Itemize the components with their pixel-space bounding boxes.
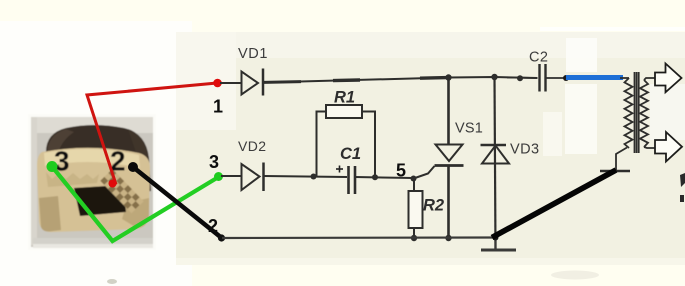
wire R2 top xyxy=(413,179,415,192)
white streak xyxy=(540,27,685,31)
svg-text:VD1: VD1 xyxy=(238,46,268,62)
svg-text:C1: C1 xyxy=(340,145,361,163)
schematic beige background xyxy=(176,32,685,262)
capacitor C2 xyxy=(540,64,546,92)
capacitor C1 plates xyxy=(349,166,356,194)
svg-text:VD2: VD2 xyxy=(238,138,266,154)
photo of ignition coil connector xyxy=(28,114,156,250)
white patch small left xyxy=(543,112,562,156)
white patch near transformer xyxy=(565,84,597,154)
plus sign C1 xyxy=(336,166,343,173)
diode VD3 xyxy=(481,77,510,250)
svg-text:VS1: VS1 xyxy=(455,121,483,137)
wire C1 to node 5 xyxy=(355,177,413,178)
wire secondary top xyxy=(644,78,655,80)
red wire from schematic pin 1 to photo xyxy=(87,83,217,185)
photo bottom gray strip xyxy=(33,238,153,248)
bottom-left smudge xyxy=(107,279,117,284)
wire C2 right xyxy=(546,77,566,79)
resistor R2 xyxy=(409,191,423,228)
node dot 5 xyxy=(411,176,417,182)
svg-text:R1: R1 xyxy=(334,89,355,107)
green wire from photo pin 3 to schematic input 3 xyxy=(52,167,219,242)
wire VD2 anode xyxy=(221,175,241,177)
schematic lighter top band xyxy=(176,32,685,58)
node dot VS1 anode xyxy=(445,74,451,80)
right edge glyph xyxy=(680,173,685,187)
wire thick segment c xyxy=(420,76,447,80)
node dot VD3 top xyxy=(491,74,497,80)
bottom-right smudge xyxy=(551,271,599,280)
socket opening xyxy=(74,185,126,216)
primary winding xyxy=(625,78,633,148)
wire thick segment a xyxy=(264,80,301,84)
green node dot at 3 xyxy=(214,172,223,181)
node dot C2 left xyxy=(517,75,523,81)
coil body dark blob xyxy=(46,125,151,192)
connector housing tan xyxy=(37,148,150,232)
wire VD2 to C1 xyxy=(264,176,347,177)
svg-text:3: 3 xyxy=(209,152,219,172)
resistor R1 xyxy=(326,105,362,118)
white left panel xyxy=(0,21,192,286)
white patch right of transformer xyxy=(650,84,685,140)
node dot R2 bottom xyxy=(411,235,417,241)
schematic lighter left edge xyxy=(176,32,236,130)
wire R1 left branch xyxy=(317,112,327,177)
diode VD2 xyxy=(242,163,264,192)
wire C2 left xyxy=(507,77,538,80)
node dot ground xyxy=(493,235,499,241)
svg-text:2: 2 xyxy=(208,216,218,236)
thick black wire transformer to ground xyxy=(492,170,616,238)
wire thick segment b xyxy=(333,78,360,82)
checkered pin strip xyxy=(100,169,143,213)
svg-text:R2: R2 xyxy=(423,197,444,215)
core xyxy=(634,72,636,153)
arrow top output xyxy=(655,64,682,93)
terminal bar xyxy=(600,170,630,172)
thyristor VS1 xyxy=(435,78,464,239)
node dot 2 xyxy=(218,234,225,241)
black wire from photo pin 2 to bottom rail xyxy=(133,167,221,237)
wire gate VS1 xyxy=(414,166,435,179)
wire R2 bottom xyxy=(413,228,415,238)
white patch upper xyxy=(566,38,597,72)
node dot right of R1C1 xyxy=(372,174,378,180)
wire VD1 anode xyxy=(220,82,241,84)
svg-text:5: 5 xyxy=(396,161,406,181)
svg-text:1: 1 xyxy=(213,97,223,117)
transformer T1 xyxy=(600,72,655,171)
diode VD1 xyxy=(242,69,264,96)
green dot photo pin 3 xyxy=(47,161,58,172)
wire primary top xyxy=(620,77,629,79)
blue wire xyxy=(566,75,623,80)
wire top rail xyxy=(264,77,538,83)
svg-text:VD3: VD3 xyxy=(510,142,539,158)
red dot photo end xyxy=(109,180,117,188)
beige fade strip xyxy=(176,258,685,265)
wire secondary bottom xyxy=(644,147,655,148)
red node dot at 1 xyxy=(213,79,222,88)
node dot left of R1C1 xyxy=(311,174,317,180)
arrow bottom output xyxy=(655,132,682,162)
ground xyxy=(481,238,516,251)
secondary winding xyxy=(640,80,648,147)
wire R1 right branch xyxy=(362,112,375,178)
node dot blue start xyxy=(563,75,569,81)
node dot VS1 cathode xyxy=(445,235,451,241)
wire primary bottom xyxy=(616,148,627,171)
black dot photo pin 2 xyxy=(128,162,138,172)
svg-text:C2: C2 xyxy=(529,50,548,66)
wire bottom rail xyxy=(222,236,496,239)
